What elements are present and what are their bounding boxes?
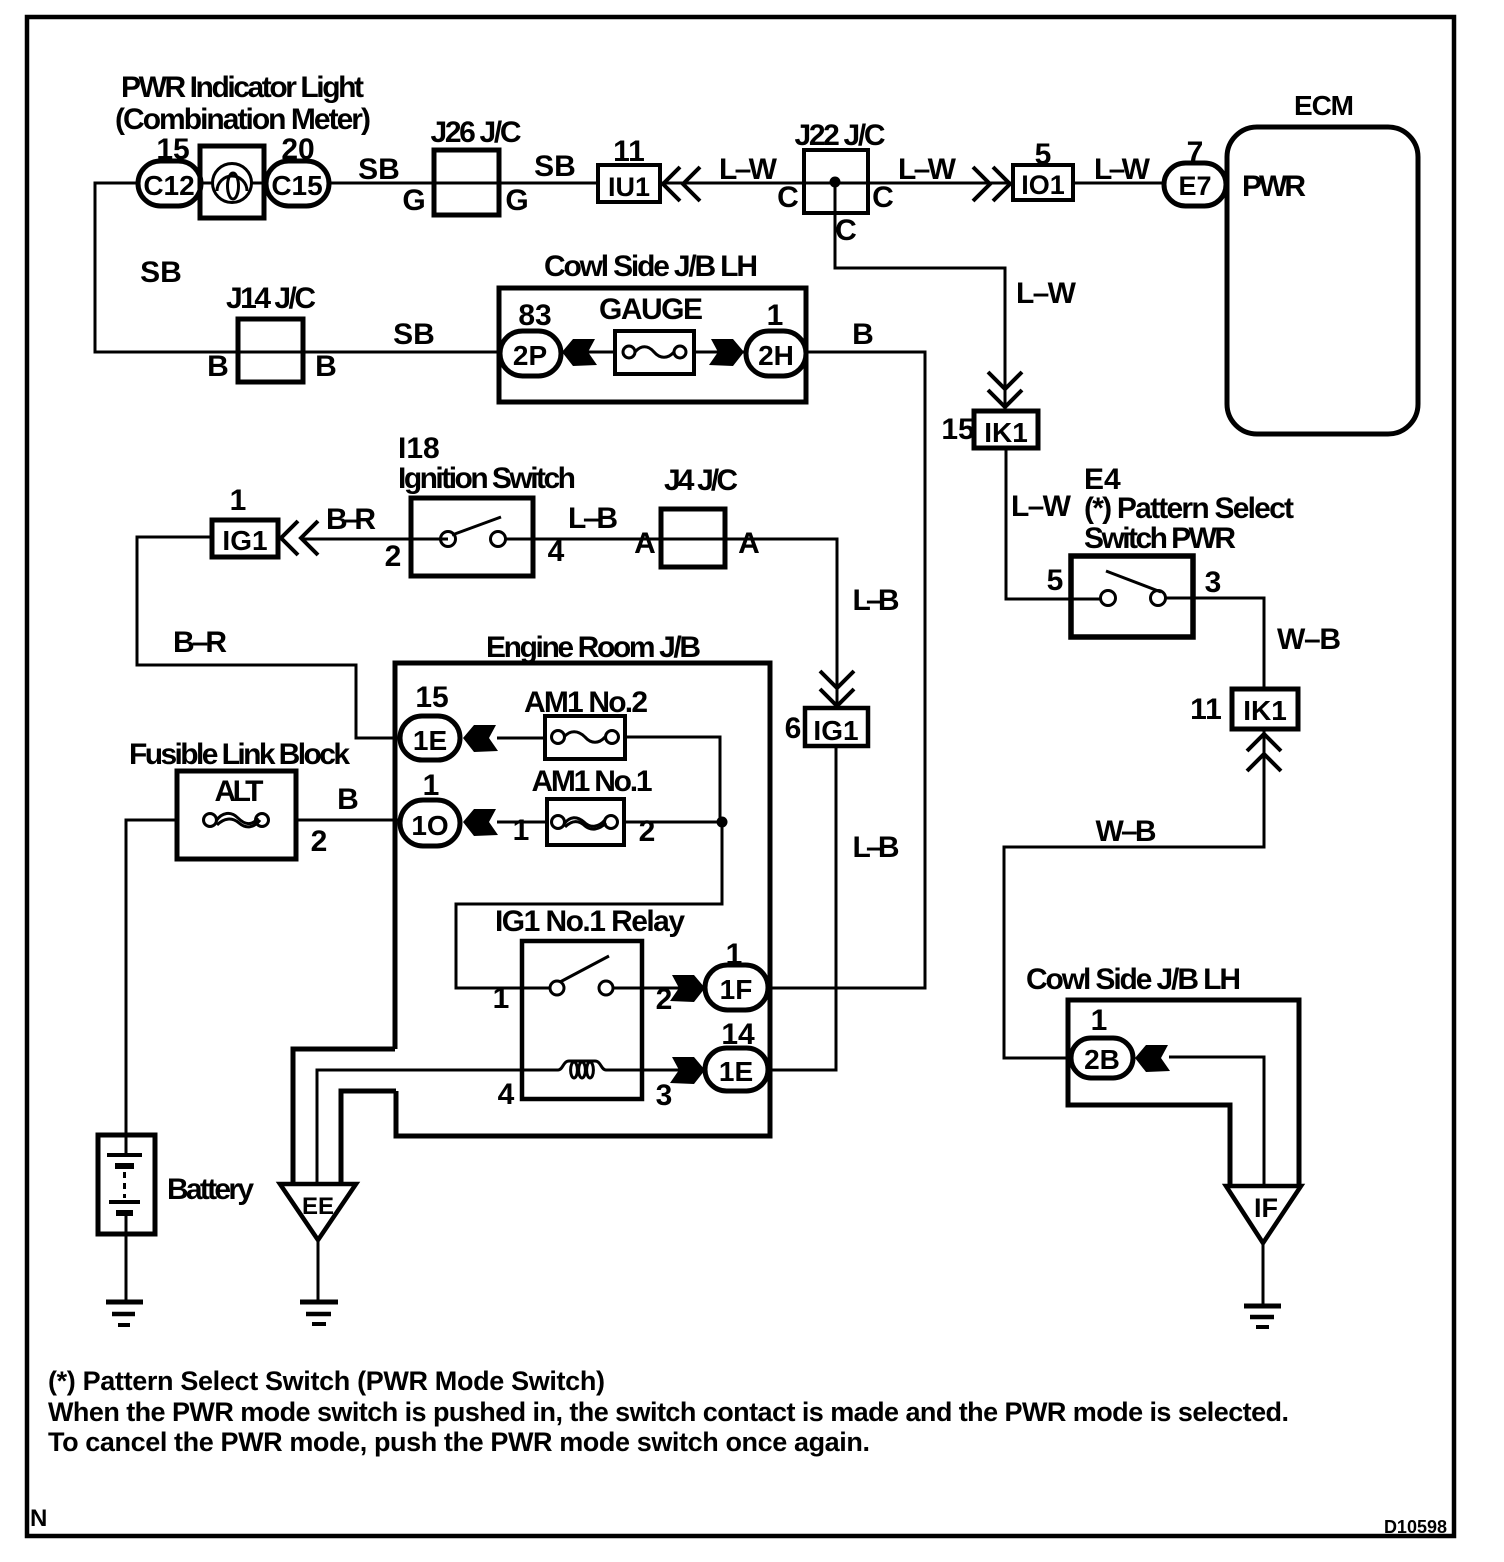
- svg-text:Engine Room J/B: Engine Room J/B: [486, 631, 701, 664]
- svg-text:To cancel the PWR mode, push t: To cancel the PWR mode, push the PWR mod…: [48, 1427, 870, 1457]
- svg-text:IG1: IG1: [813, 715, 858, 746]
- svg-text:J14 J/C: J14 J/C: [226, 282, 316, 315]
- wire: IG1 to 1E via B-R: [137, 537, 400, 738]
- svg-text:2P: 2P: [513, 340, 547, 371]
- wire: EE apex to ground: [317, 1240, 320, 1300]
- svg-text:I18: I18: [398, 432, 440, 465]
- svg-text:A: A: [738, 527, 760, 560]
- svg-text:W–B: W–B: [1277, 623, 1341, 656]
- svg-text:IK1: IK1: [984, 417, 1028, 448]
- filled arrow pointing right at 2H: [709, 339, 744, 366]
- svg-text:B: B: [337, 783, 359, 816]
- wire: IU1 to J22: [660, 182, 1013, 185]
- wire: IG1 (6) down to 1E (14): [768, 746, 836, 1070]
- svg-text:N: N: [30, 1505, 47, 1532]
- wire: J22 drop to IK1: [835, 182, 1005, 411]
- svg-text:C12: C12: [143, 170, 194, 201]
- wire: AM1 No.1 to junction: [624, 821, 722, 824]
- filled arrow pointing right at 1E (14): [670, 1057, 705, 1084]
- connector 2P: [500, 331, 561, 376]
- svg-text:B: B: [207, 350, 229, 383]
- lamp PWR indicator (combination meter): [200, 146, 264, 218]
- svg-text:15: 15: [941, 413, 974, 446]
- svg-text:C: C: [872, 181, 894, 214]
- wire: IK1 (11) down and across to 2B: [1004, 729, 1264, 1058]
- svg-text:1: 1: [493, 982, 510, 1015]
- filled arrow pointing left at 2B: [1135, 1045, 1170, 1072]
- svg-text:ECM: ECM: [1294, 90, 1354, 121]
- chevron arrows pointing left at IU1: [663, 167, 700, 201]
- svg-text:11: 11: [1190, 693, 1222, 726]
- connector C15: [266, 161, 329, 206]
- svg-text:B: B: [852, 318, 874, 351]
- svg-text:B: B: [315, 350, 337, 383]
- svg-text:J22 J/C: J22 J/C: [795, 119, 886, 152]
- svg-text:L–B: L–B: [568, 502, 618, 535]
- connector IG1 (1): [212, 520, 278, 557]
- wire: AM1 No.2 to junction: [625, 737, 720, 822]
- junction dot in J22: [830, 177, 841, 188]
- svg-text:2B: 2B: [1084, 1044, 1120, 1075]
- chevron arrows pointing left at IG1: [281, 521, 318, 555]
- svg-text:IF: IF: [1254, 1193, 1278, 1223]
- svg-text:SB: SB: [358, 153, 400, 186]
- svg-text:G: G: [402, 184, 425, 217]
- wire: ignition switch to J4: [506, 539, 837, 708]
- wire: 2P to GAUGE fuse: [561, 351, 615, 354]
- svg-text:6: 6: [785, 712, 802, 745]
- wire: arrow to AM1 No.2 fuse: [497, 737, 545, 740]
- wire: 2B arrow to IF: [1169, 1057, 1264, 1186]
- svg-text:EE: EE: [302, 1193, 334, 1220]
- svg-text:Battery: Battery: [167, 1173, 254, 1206]
- svg-text:1: 1: [1091, 1004, 1108, 1037]
- svg-text:L–W: L–W: [1094, 153, 1151, 186]
- switch I18 ignition: [411, 498, 533, 576]
- svg-text:GAUGE: GAUGE: [599, 293, 703, 326]
- svg-text:PWR: PWR: [1242, 170, 1306, 203]
- svg-text:L–W: L–W: [1011, 490, 1072, 523]
- svg-text:SB: SB: [534, 150, 576, 183]
- filled arrow pointing left at 2P: [562, 339, 597, 366]
- fusible link ALT: [177, 771, 296, 859]
- battery: [98, 1135, 155, 1300]
- svg-text:Switch PWR: Switch PWR: [1084, 522, 1236, 555]
- svg-text:SB: SB: [140, 256, 182, 289]
- svg-text:D10598: D10598: [1384, 1517, 1447, 1537]
- connector C12: [138, 161, 201, 206]
- connector IK1 (15): [974, 411, 1038, 448]
- wire: E4 pin3 to IK1 (11): [1166, 598, 1264, 689]
- svg-text:L–B: L–B: [853, 584, 900, 617]
- ground wire from J/B bottom corner to EE: [341, 1091, 396, 1184]
- svg-text:Cowl Side J/B LH: Cowl Side J/B LH: [544, 250, 758, 283]
- svg-text:15: 15: [415, 681, 448, 714]
- wire: chevrons to ignition switch: [301, 538, 448, 541]
- ground triangle IF: [1226, 1186, 1301, 1243]
- chevron arrows pointing up below IK1: [1247, 734, 1281, 771]
- wire: IO1 to E7: [1073, 182, 1164, 185]
- wire: C15 to J26: [329, 182, 598, 185]
- svg-text:AM1 No.1: AM1 No.1: [532, 765, 653, 798]
- wire: ALT to battery: [126, 820, 177, 1135]
- chevron arrows pointing down above IK1: [988, 372, 1022, 407]
- filled arrow pointing left at 1E (15): [463, 725, 498, 752]
- wire: ALT to 1O: [296, 819, 400, 822]
- wire: IK1 down to pattern select switch: [1006, 448, 1100, 599]
- svg-text:L–B: L–B: [853, 831, 900, 864]
- wire: relay pin 3 to 1E (14): [642, 1069, 705, 1072]
- svg-text:(*) Pattern Select Switch (PWR: (*) Pattern Select Switch (PWR Mode Swit…: [48, 1366, 605, 1396]
- filled arrow pointing left at 1O: [463, 809, 498, 836]
- svg-text:83: 83: [518, 299, 551, 332]
- svg-text:Cowl Side J/B LH: Cowl Side J/B LH: [1026, 963, 1241, 996]
- svg-text:4: 4: [498, 1078, 515, 1111]
- connector IO1: [1013, 165, 1073, 200]
- chevron arrows pointing right before IO1: [973, 167, 1010, 201]
- switch E4 pattern select: [1071, 556, 1193, 637]
- ground triangle EE: [280, 1184, 356, 1240]
- svg-text:(*) Pattern Select: (*) Pattern Select: [1084, 492, 1294, 525]
- svg-text:J26 J/C: J26 J/C: [431, 116, 522, 149]
- connector 1F: [705, 965, 768, 1010]
- svg-text:When the PWR mode switch is pu: When the PWR mode switch is pushed in, t…: [48, 1397, 1289, 1427]
- svg-text:1: 1: [230, 484, 247, 517]
- svg-text:ALT: ALT: [215, 775, 264, 808]
- svg-text:2H: 2H: [758, 340, 794, 371]
- svg-text:B–R: B–R: [173, 626, 227, 659]
- svg-text:1F: 1F: [720, 974, 753, 1005]
- svg-text:J4 J/C: J4 J/C: [664, 464, 738, 497]
- svg-text:C: C: [777, 181, 799, 214]
- connector 1O: [400, 800, 460, 846]
- svg-text:2: 2: [385, 540, 402, 573]
- chevron arrows pointing down above IG1 (6): [820, 671, 854, 706]
- svg-text:1E: 1E: [719, 1056, 753, 1087]
- ground below IF: [1244, 1306, 1281, 1327]
- svg-text:PWR Indicator Light: PWR Indicator Light: [121, 71, 364, 104]
- svg-text:1: 1: [767, 299, 784, 332]
- svg-text:3: 3: [1205, 566, 1222, 599]
- svg-text:1O: 1O: [411, 810, 448, 841]
- svg-text:(Combination Meter): (Combination Meter): [115, 103, 371, 136]
- junction dot: [717, 817, 728, 828]
- svg-text:1: 1: [513, 814, 530, 847]
- wire: junction to relay pin 1: [456, 822, 722, 988]
- ground below battery: [106, 1302, 143, 1325]
- svg-text:2: 2: [311, 825, 328, 858]
- svg-text:IK1: IK1: [1243, 695, 1287, 726]
- svg-text:5: 5: [1047, 564, 1064, 597]
- svg-text:IG1 No.1 Relay: IG1 No.1 Relay: [495, 905, 685, 938]
- connector 2H: [746, 331, 806, 376]
- svg-text:L–W: L–W: [898, 153, 957, 186]
- wire: arrow to AM1 No.1 fuse: [497, 821, 547, 824]
- svg-text:C15: C15: [271, 170, 322, 201]
- connector IG1 (6): [805, 708, 868, 746]
- connector 2B: [1071, 1038, 1133, 1078]
- connector E7: [1164, 163, 1226, 206]
- ground below EE: [300, 1302, 338, 1324]
- svg-text:IU1: IU1: [608, 172, 650, 202]
- svg-text:Fusible Link Block: Fusible Link Block: [129, 738, 350, 771]
- svg-text:1: 1: [423, 769, 440, 802]
- svg-text:2: 2: [639, 815, 656, 848]
- svg-text:W–B: W–B: [1096, 815, 1157, 848]
- connector IU1: [598, 165, 660, 202]
- wire: GAUGE fuse to 2H: [694, 351, 748, 354]
- wire: 2H B wire down to 1F: [768, 352, 925, 988]
- wire: relay coil to EE ground: [317, 1070, 522, 1184]
- svg-text:A: A: [634, 527, 656, 560]
- svg-text:IG1: IG1: [222, 525, 267, 556]
- connector 1E (14): [705, 1048, 768, 1091]
- svg-text:Ignition Switch: Ignition Switch: [398, 462, 576, 495]
- svg-text:E7: E7: [1178, 171, 1211, 201]
- wire: IF apex to ground: [1262, 1243, 1265, 1304]
- svg-text:C: C: [835, 214, 857, 247]
- ground wire from J/B left edge to EE: [293, 1049, 395, 1184]
- svg-text:G: G: [505, 184, 528, 217]
- svg-text:IO1: IO1: [1021, 170, 1065, 200]
- wire: C12 to left drop: [95, 183, 500, 352]
- svg-text:B–R: B–R: [326, 503, 376, 536]
- svg-text:L–W: L–W: [1016, 277, 1077, 310]
- svg-text:SB: SB: [393, 318, 435, 351]
- svg-text:3: 3: [656, 1079, 673, 1112]
- filled arrow pointing right at 1F: [670, 975, 705, 1002]
- connector 1E (15): [400, 716, 460, 760]
- wire: relay pin 2 to 1F: [613, 987, 705, 990]
- svg-text:1E: 1E: [413, 725, 447, 756]
- connector IK1 (11): [1232, 689, 1298, 729]
- svg-text:L–W: L–W: [719, 153, 778, 186]
